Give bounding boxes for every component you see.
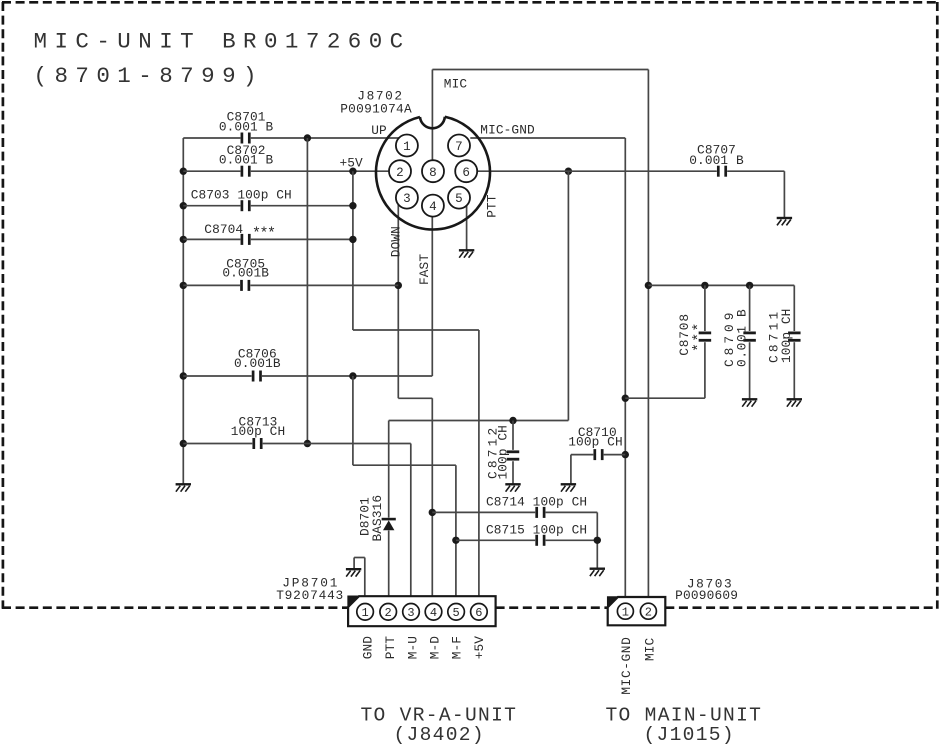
svg-text:C8714 100p CH: C8714 100p CH (486, 495, 587, 510)
svg-text:P0090609: P0090609 (675, 588, 738, 603)
svg-text:100p CH: 100p CH (495, 425, 510, 479)
J8702 pin 4 (422, 195, 444, 217)
svg-text:FAST: FAST (417, 254, 432, 285)
caption TO MAIN-UNIT (J1015) (606, 705, 763, 746)
svg-text:PTT: PTT (383, 636, 398, 660)
svg-text:UP: UP (371, 123, 387, 138)
svg-text:2: 2 (396, 166, 404, 180)
capacitor C8703 (191, 187, 292, 211)
ground (JP8701 pin1) (346, 569, 361, 576)
J8702 pin 2 (389, 160, 411, 182)
J8702 pin 8 (422, 160, 444, 182)
JP8701 pin 6 (471, 604, 488, 621)
capacitor C8701 (219, 110, 274, 144)
wire DIN pin6 row to C8707 and ground (477, 171, 784, 218)
JP8701 pin 3 (403, 604, 420, 621)
svg-text:0.001 B: 0.001 B (689, 153, 744, 168)
JP8701 pin 1 (357, 604, 374, 621)
svg-text:6: 6 (462, 166, 470, 180)
svg-text:+5V: +5V (472, 636, 487, 660)
svg-text:5: 5 (455, 192, 463, 206)
wire MIC rail for C8708 C8709 C8711 (625, 282, 794, 400)
svg-text:C8708: C8708 (677, 313, 692, 356)
wire PTT net: DIN pin6 row branch down, across, through diode D8701 to JP8701 pin2 (389, 168, 572, 605)
connector J8702 DIN socket outline with notch (376, 117, 490, 230)
svg-text:3: 3 (403, 192, 411, 206)
svg-text:7: 7 (455, 140, 463, 154)
svg-text:1: 1 (361, 606, 368, 620)
capacitor C8707 (689, 142, 744, 176)
wire ground bus (left) with junctions (180, 138, 187, 484)
ground (C8707) (777, 218, 792, 225)
svg-text:MIC-GND: MIC-GND (619, 637, 634, 695)
wire DOWN net: DIN pin3 down, C8705 row junction, jog to JP8701 pin4 (183, 205, 436, 604)
svg-text:4: 4 (430, 606, 437, 620)
ground (C8714 C8715) (590, 569, 605, 576)
svg-text:(J8402): (J8402) (394, 724, 485, 746)
svg-text:MIC: MIC (643, 637, 658, 661)
svg-text:3: 3 (407, 606, 414, 620)
ground (C8711) (787, 399, 802, 406)
capacitor C8708 (677, 313, 711, 356)
svg-text:***: *** (252, 226, 275, 243)
capacitor C8702 (219, 143, 274, 177)
J8702 pin 5 (448, 187, 470, 209)
J8703 pin 2 (640, 603, 656, 619)
svg-text:4: 4 (429, 200, 437, 214)
svg-text:C8703 100p CH: C8703 100p CH (191, 187, 292, 202)
diode D8701 BAS316 (357, 495, 396, 542)
svg-text:(J1015): (J1015) (644, 724, 735, 746)
wire UP net: C8701 row to DIN pin1, vertical trunk, C8713 row to JP8701 pin3 (183, 134, 410, 604)
capacitor C8706 (234, 347, 281, 382)
svg-text:0.001 B: 0.001 B (219, 119, 274, 134)
J8702 pin 6 (455, 160, 477, 182)
capacitor C8709 (722, 309, 756, 367)
wire DIN pin5 to chassis ground (466, 205, 468, 250)
capacitor C8710 with wires and ground (568, 425, 625, 484)
capacitor C8713 (231, 415, 285, 449)
svg-text:1: 1 (403, 140, 411, 154)
capacitor C8712 with wires and ground (485, 421, 519, 485)
J8702 pin 3 (396, 187, 418, 209)
svg-text:BAS316: BAS316 (370, 495, 385, 542)
svg-text:2: 2 (645, 606, 652, 620)
svg-text:2: 2 (385, 606, 392, 620)
svg-text:(8701-8799): (8701-8799) (34, 63, 264, 89)
svg-text:M-U: M-U (406, 636, 421, 659)
svg-text:C8715 100p CH: C8715 100p CH (486, 522, 587, 537)
svg-text:M-F: M-F (450, 636, 465, 659)
svg-text:0.001 B: 0.001 B (219, 152, 274, 167)
svg-text:MIC: MIC (444, 76, 468, 91)
svg-text:0.001 B: 0.001 B (735, 309, 750, 367)
ground (C8709) (742, 399, 757, 406)
svg-text:M-D: M-D (428, 636, 443, 660)
capacitor C8715 with row wires and shared ground (456, 512, 601, 568)
capacitor C8711 (766, 309, 800, 363)
svg-text:PTT: PTT (485, 194, 500, 218)
J8702 pin 7 (448, 135, 470, 157)
svg-text:100p CH: 100p CH (231, 424, 285, 439)
capacitor C8704 (204, 222, 275, 245)
wire JP8701 pin1 to ground (354, 558, 365, 605)
svg-text:MIC-GND: MIC-GND (480, 123, 535, 138)
ground (C8710) (561, 484, 576, 491)
svg-text:MIC-UNIT BR017260C: MIC-UNIT BR017260C (34, 29, 411, 55)
svg-text:GND: GND (360, 636, 375, 660)
wire MIC-GND net: DIN pin7 across, down to J8703 pin1 (470, 138, 629, 604)
svg-text:100p CH: 100p CH (568, 435, 622, 450)
wire +5V net: C8702 row to DIN pin2, trunk down, jog right to JP8701 pin6 (183, 168, 479, 605)
svg-text:100p CH: 100p CH (779, 309, 794, 363)
connector J8703 box (608, 597, 666, 625)
capacitor C8714 with row wires (432, 495, 597, 518)
svg-text:P0091074A: P0091074A (340, 102, 412, 117)
svg-text:1: 1 (622, 606, 629, 620)
svg-text:***: *** (691, 321, 708, 352)
svg-text:0.001B: 0.001B (222, 266, 269, 281)
svg-text:6: 6 (475, 606, 482, 620)
svg-text:8: 8 (429, 166, 437, 180)
J8702 pin 1 (396, 135, 418, 157)
JP8701 pin 4 (425, 604, 442, 621)
svg-text:0.001B: 0.001B (234, 356, 281, 371)
wire FAST net: DIN pin4 down, C8706 row, trunk down, jog right to JP8701 pin5 (183, 217, 459, 604)
wire C8703 row (gnd bus to +5V trunk) (183, 202, 356, 209)
wire MIC net: DIN pin8 up, across top, down to J8703 pin2 (432, 70, 652, 605)
JP8701 pin 5 (448, 604, 465, 621)
wire C8704 row (gnd bus to +5V trunk) (183, 236, 356, 243)
ground (left bus) (176, 484, 191, 491)
connector JP8701 box (348, 596, 496, 626)
title MIC-UNIT BR017260C (34, 29, 411, 89)
svg-text:DOWN: DOWN (389, 226, 404, 257)
svg-text:+5V: +5V (340, 155, 364, 170)
ground (C8712) (505, 484, 520, 491)
ground (DIN pin5 PTT) (459, 250, 474, 257)
capacitor C8705 (222, 256, 269, 291)
svg-text:5: 5 (452, 606, 459, 620)
svg-text:T9207443: T9207443 (276, 588, 344, 603)
caption TO VR-A-UNIT (J8402) (361, 705, 518, 746)
J8703 pin 1 (617, 603, 633, 619)
svg-text:C8704: C8704 (204, 222, 243, 237)
JP8701 pin 2 (380, 604, 397, 621)
